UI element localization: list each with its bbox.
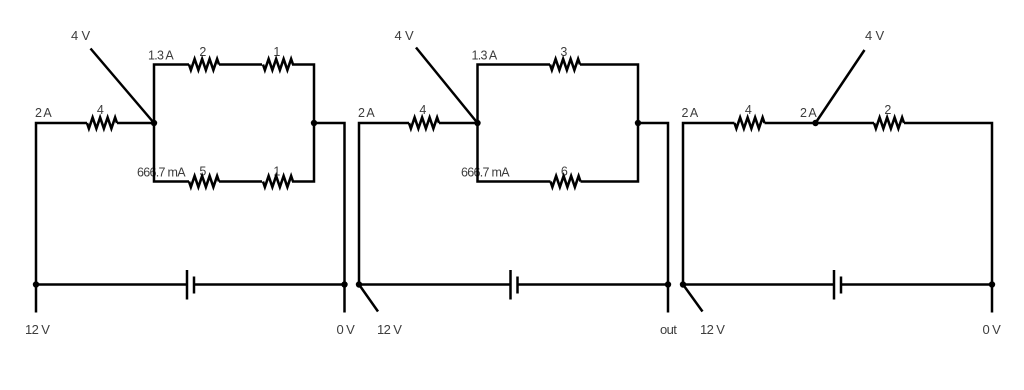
svg-text:1.3 A: 1.3 A xyxy=(148,49,174,63)
svg-text:2 A: 2 A xyxy=(358,106,375,120)
svg-text:12 V: 12 V xyxy=(377,322,402,337)
svg-text:2: 2 xyxy=(199,45,206,59)
svg-text:4: 4 xyxy=(419,103,426,117)
svg-text:3: 3 xyxy=(560,45,567,59)
svg-text:2 A: 2 A xyxy=(800,106,817,120)
svg-text:0 V: 0 V xyxy=(337,322,356,337)
svg-text:2: 2 xyxy=(884,103,891,117)
svg-text:666.7 mA: 666.7 mA xyxy=(461,166,510,180)
svg-text:4 V: 4 V xyxy=(71,28,90,43)
svg-text:1.3 A: 1.3 A xyxy=(472,49,498,63)
svg-text:0 V: 0 V xyxy=(983,322,1002,337)
svg-text:12 V: 12 V xyxy=(700,322,725,337)
svg-text:4 V: 4 V xyxy=(865,28,884,43)
svg-text:666.7 mA: 666.7 mA xyxy=(137,166,186,180)
svg-text:4: 4 xyxy=(745,103,752,117)
svg-text:2 A: 2 A xyxy=(35,106,52,120)
svg-text:out: out xyxy=(660,322,677,337)
svg-text:12 V: 12 V xyxy=(25,322,50,337)
svg-text:2 A: 2 A xyxy=(682,106,699,120)
svg-text:1: 1 xyxy=(273,45,280,59)
svg-text:4 V: 4 V xyxy=(395,28,414,43)
